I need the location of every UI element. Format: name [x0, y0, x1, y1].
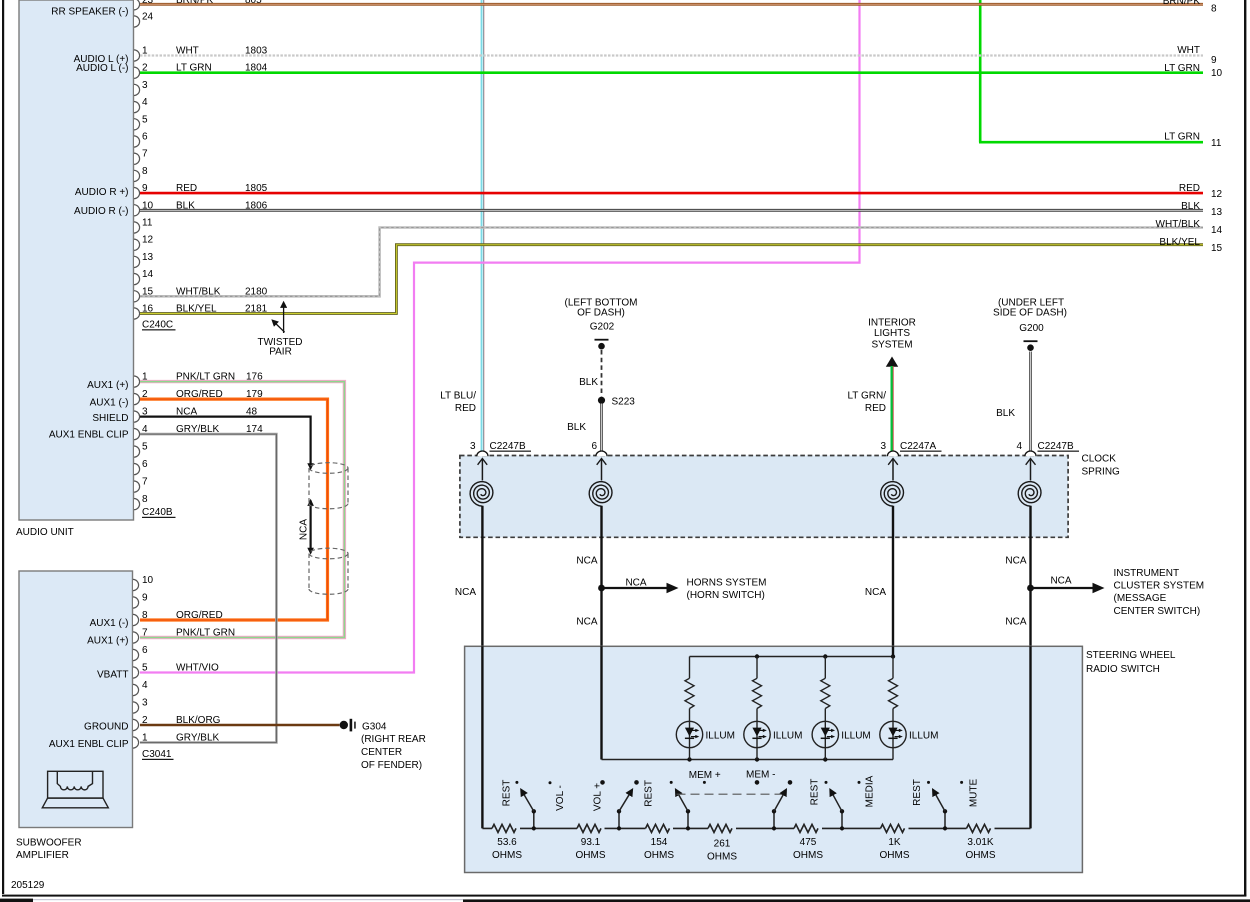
svg-text:NCA: NCA: [1005, 617, 1026, 628]
svg-text:RED: RED: [455, 403, 476, 414]
illumination LED 1: [676, 721, 702, 748]
subwoofer speaker icon: [42, 771, 108, 808]
svg-text:LT BLU/: LT BLU/: [440, 391, 476, 402]
svg-text:11: 11: [142, 218, 153, 229]
wire BLK/ORG subwoofer pin2 to G304: [140, 724, 340, 727]
svg-text:205129: 205129: [11, 880, 45, 891]
right edge pin numbers: [1211, 4, 1223, 255]
connector C240B pin bumps: [134, 376, 140, 510]
illumination LED 3: [812, 721, 838, 748]
svg-text:RADIO SWITCH: RADIO SWITCH: [1086, 664, 1160, 675]
LT BLU/RED wire label: [440, 391, 476, 415]
svg-text:1K: 1K: [888, 837, 901, 848]
interior lights arrow: [886, 357, 898, 367]
svg-text:BLK: BLK: [567, 422, 586, 433]
clock spring connector labels: [470, 441, 531, 452]
svg-text:WHT: WHT: [1177, 45, 1200, 56]
ground G200 symbol: [1024, 340, 1038, 351]
svg-text:4: 4: [142, 97, 148, 108]
illumination LED 2: [744, 721, 770, 748]
svg-text:3: 3: [470, 441, 476, 452]
svg-text:3.01K: 3.01K: [967, 837, 993, 848]
svg-text:OF DASH): OF DASH): [577, 308, 625, 319]
svg-text:6: 6: [142, 132, 148, 143]
svg-text:REST: REST: [810, 779, 821, 806]
svg-text:RR SPEAKER (-): RR SPEAKER (-): [51, 7, 128, 18]
svg-text:11: 11: [1211, 138, 1222, 149]
svg-text:CLUSTER SYSTEM: CLUSTER SYSTEM: [1114, 581, 1205, 592]
svg-text:LT GRN: LT GRN: [1164, 132, 1200, 143]
svg-text:C2247B: C2247B: [1038, 441, 1074, 452]
clock spring coil 3: [881, 459, 904, 507]
svg-text:7: 7: [142, 149, 148, 160]
switch S1 REST/VOL-: [515, 781, 551, 831]
steering wheel radio switch box: [465, 646, 1083, 872]
splice on wire2: [598, 585, 605, 592]
clock spring coil 4: [1018, 459, 1041, 507]
svg-text:LT GRN/: LT GRN/: [847, 391, 886, 402]
svg-text:12: 12: [142, 235, 154, 246]
wire GRY/BLK 174 audio pin4 to subwoofer pin1: [140, 434, 276, 742]
svg-text:RED: RED: [865, 403, 886, 414]
svg-text:(RIGHT REAR: (RIGHT REAR: [361, 734, 426, 745]
resistor 93.1 OHMS: [577, 824, 601, 832]
svg-text:G202: G202: [590, 322, 615, 333]
connector C3041 pin bumps: [133, 579, 139, 748]
svg-text:BLK/YEL: BLK/YEL: [1159, 237, 1200, 248]
svg-text:3: 3: [142, 698, 148, 709]
svg-text:REST: REST: [501, 780, 512, 807]
illumination bottom bus: [602, 759, 894, 761]
svg-text:CENTER SWITCH): CENTER SWITCH): [1114, 606, 1201, 617]
svg-text:ILLUM: ILLUM: [773, 731, 802, 742]
svg-text:6: 6: [142, 459, 148, 470]
svg-text:LIGHTS: LIGHTS: [874, 328, 910, 339]
svg-text:REST: REST: [644, 780, 655, 807]
connector C240B pin numbers and wire labels: [142, 372, 263, 506]
wire WHT/VIO subwoofer pin5 run: [140, 0, 860, 673]
svg-text:14: 14: [142, 269, 154, 280]
svg-text:AUDIO R (-): AUDIO R (-): [74, 206, 128, 217]
svg-text:CLOCK: CLOCK: [1082, 454, 1117, 465]
resistor 475 OHMS: [794, 824, 818, 832]
svg-text:OHMS: OHMS: [793, 850, 823, 861]
svg-text:C2247B: C2247B: [490, 441, 526, 452]
svg-text:BRN/PK: BRN/PK: [1163, 0, 1201, 7]
wires re-drawn over box: NCA verticals inside box: [482, 646, 1030, 828]
svg-text:NCA: NCA: [576, 556, 597, 567]
svg-text:12: 12: [1211, 189, 1223, 200]
svg-text:475: 475: [800, 837, 817, 848]
connector C240C wire name and circuit labels: [176, 0, 268, 315]
svg-text:NCA: NCA: [576, 617, 597, 628]
wire LT GRN right pin11 vertical drop: [979, 0, 982, 142]
svg-text:WHT/BLK: WHT/BLK: [1156, 219, 1201, 230]
svg-text:14: 14: [1211, 225, 1223, 236]
svg-text:SYSTEM: SYSTEM: [871, 340, 912, 351]
svg-text:AUX1 (+): AUX1 (+): [87, 380, 128, 391]
svg-text:SIDE OF DASH): SIDE OF DASH): [993, 308, 1067, 319]
svg-text:OHMS: OHMS: [707, 852, 737, 863]
clock spring coil 1: [470, 459, 493, 507]
svg-text:13: 13: [1211, 207, 1223, 218]
svg-text:154: 154: [651, 837, 668, 848]
shield drain middle arrowheads: [307, 499, 314, 506]
svg-text:INSTRUMENT: INSTRUMENT: [1114, 568, 1180, 579]
svg-text:NCA: NCA: [299, 519, 310, 540]
svg-text:NCA: NCA: [865, 587, 886, 598]
illumination resistor column 2: [753, 657, 762, 760]
svg-text:ILLUM: ILLUM: [909, 731, 938, 742]
twisted pair callout arrows: [283, 303, 285, 334]
wire BLK G200 to clock spring pin4 C2247B: [1029, 352, 1032, 452]
svg-text:3: 3: [142, 80, 148, 91]
svg-text:10: 10: [142, 575, 154, 586]
svg-text:53.6: 53.6: [497, 837, 517, 848]
svg-text:5: 5: [142, 663, 148, 674]
switch S4 MEM- side: [755, 780, 793, 830]
svg-text:7: 7: [142, 477, 148, 488]
svg-text:5: 5: [142, 442, 148, 453]
connector C240C pin numbers: [142, 0, 154, 315]
shield drain middle segment: [310, 501, 312, 553]
wire BLK S223 to clock spring pin6: [600, 404, 603, 452]
resistor 261 OHMS: [708, 824, 732, 832]
svg-text:6: 6: [142, 645, 148, 656]
svg-text:INTERIOR: INTERIOR: [868, 318, 916, 329]
branch to horns system: [602, 587, 669, 589]
svg-text:13: 13: [142, 252, 154, 263]
svg-text:9: 9: [1211, 55, 1217, 66]
svg-text:BLK: BLK: [996, 408, 1015, 419]
svg-text:6: 6: [591, 441, 597, 452]
svg-text:CENTER: CENTER: [361, 747, 402, 758]
page border left: [2, 0, 4, 894]
wire ORG/RED 179 audio pin2 to subwoofer pin8: [140, 399, 328, 620]
wire NCA clock spring 3 down to illumination top bus: [892, 506, 894, 657]
svg-text:8: 8: [142, 166, 148, 177]
svg-text:SUBWOOFER: SUBWOOFER: [16, 838, 82, 849]
audio unit block body: [19, 0, 134, 520]
branch to instrument cluster: [1031, 587, 1095, 589]
wire NCA 48 shield drain upper segment: [140, 417, 311, 464]
svg-text:OHMS: OHMS: [644, 850, 674, 861]
svg-text:24: 24: [142, 12, 154, 23]
svg-text:C240C: C240C: [142, 320, 173, 331]
illumination resistor column 3: [821, 657, 830, 760]
svg-text:S223: S223: [612, 397, 636, 408]
mechanical gang dashed link: [677, 793, 784, 795]
svg-text:BLK: BLK: [579, 377, 598, 388]
wire resistor chain segments: [482, 827, 1030, 829]
svg-text:G304: G304: [362, 722, 387, 733]
svg-text:3: 3: [880, 441, 886, 452]
svg-text:AUX1 ENBL CLIP: AUX1 ENBL CLIP: [49, 430, 129, 441]
svg-text:PAIR: PAIR: [269, 347, 292, 358]
shield cylinder upper: [309, 463, 348, 509]
wire NCA clock spring 1 down to switch chain: [481, 506, 483, 829]
svg-text:AUX1 (+): AUX1 (+): [87, 636, 128, 647]
svg-text:OHMS: OHMS: [576, 850, 606, 861]
svg-text:MUTE: MUTE: [969, 779, 980, 808]
subwoofer amplifier block body: [19, 571, 133, 828]
svg-text:OHMS: OHMS: [880, 850, 910, 861]
svg-text:NCA: NCA: [455, 587, 476, 598]
wire LT GRN right pin11 horizontal: [979, 141, 1203, 144]
subwoofer signal labels: [49, 618, 129, 750]
switch S6 REST/MUTE: [927, 781, 963, 831]
resistor 1K OHMS: [881, 824, 905, 832]
svg-text:WHT/VIO: WHT/VIO: [176, 663, 219, 674]
svg-text:10: 10: [1211, 68, 1223, 79]
svg-text:OHMS: OHMS: [492, 850, 522, 861]
resistor 154 OHMS: [646, 824, 670, 832]
svg-text:5: 5: [142, 114, 148, 125]
wire PNK/LT GRN 176 audio pin1 to subwoofer pin7: [140, 382, 344, 638]
svg-text:AUX1 (-): AUX1 (-): [90, 398, 129, 409]
resistor 3.01K OHMS: [967, 824, 991, 832]
illumination LED 4: [880, 721, 906, 748]
connector C240C pin bumps: [134, 0, 140, 319]
ground G202 symbol: [595, 339, 609, 350]
svg-text:9: 9: [142, 593, 148, 604]
next page top bar right: [463, 899, 1250, 902]
page border right: [1244, 0, 1246, 896]
clock spring box: [460, 456, 1068, 538]
shield cylinder lower: [309, 548, 348, 594]
svg-text:SPRING: SPRING: [1082, 467, 1121, 478]
svg-text:(HORN SWITCH): (HORN SWITCH): [687, 590, 765, 601]
svg-text:LT GRN: LT GRN: [1164, 63, 1200, 74]
svg-text:NCA: NCA: [1050, 576, 1071, 587]
svg-text:STEERING WHEEL: STEERING WHEEL: [1086, 650, 1176, 661]
splice on wire4: [1027, 585, 1034, 592]
page border bottom: [2, 895, 1246, 897]
svg-text:NCA: NCA: [625, 578, 646, 589]
svg-text:SHIELD: SHIELD: [92, 413, 128, 424]
svg-text:BLK: BLK: [1181, 201, 1200, 212]
svg-text:HORNS SYSTEM: HORNS SYSTEM: [687, 578, 767, 589]
audio unit signal labels: [49, 7, 129, 441]
svg-text:REST: REST: [912, 779, 923, 806]
LT GRN/RED wire label: [847, 391, 886, 415]
bottom bus junction dots: [687, 757, 691, 761]
switch S3 MEM+ side: [670, 781, 706, 831]
connector C3041 pin numbers and wire labels: [142, 575, 235, 744]
wire WHT 1803 pin1 to right pin9: [140, 54, 1203, 56]
svg-text:MEM -: MEM -: [746, 770, 775, 781]
next page faint rule: [33, 899, 463, 900]
svg-text:MEM +: MEM +: [689, 770, 721, 781]
top bus junction dots: [755, 654, 759, 658]
svg-text:G200: G200: [1019, 323, 1044, 334]
wire BLK/YEL 2181 pin16 run: [140, 245, 1203, 314]
wire LT GRN/RED to interior lights system: [892, 366, 893, 452]
wire LT GRN 1804 pin2 to right pin10: [140, 71, 1203, 74]
svg-text:NCA: NCA: [1005, 556, 1026, 567]
svg-text:4: 4: [142, 680, 148, 691]
wire WHT/BLK 2180 dark fleck center: [140, 228, 1203, 297]
svg-text:AUDIO R +): AUDIO R +): [75, 187, 129, 198]
svg-text:GROUND: GROUND: [84, 722, 128, 733]
svg-text:ILLUM: ILLUM: [841, 731, 870, 742]
svg-text:AUDIO L (-): AUDIO L (-): [76, 63, 128, 74]
svg-text:VOL -: VOL -: [555, 785, 566, 811]
switch S5 REST/MEDIA: [825, 781, 861, 831]
resistor value captions: [492, 837, 996, 863]
svg-text:C240B: C240B: [142, 507, 173, 518]
svg-text:OF FENDER): OF FENDER): [361, 760, 422, 771]
wire BRN/PK 805 pin23 to right pin8: [140, 3, 1203, 6]
svg-text:261: 261: [714, 839, 731, 850]
svg-text:(MESSAGE: (MESSAGE: [1114, 593, 1167, 604]
svg-text:AUDIO UNIT: AUDIO UNIT: [16, 527, 74, 538]
svg-text:OHMS: OHMS: [966, 850, 996, 861]
resistor 53.6 OHMS: [492, 824, 516, 832]
svg-text:VBATT: VBATT: [97, 670, 128, 681]
wire RED 1805 pin9 to right pin12: [140, 192, 1203, 195]
wire BLK 1806 pin10 to right pin13: [140, 209, 1203, 212]
illumination resistor column 4: [889, 657, 898, 760]
svg-text:AMPLIFIER: AMPLIFIER: [16, 850, 69, 861]
svg-text:AUX1 ENBL CLIP: AUX1 ENBL CLIP: [49, 739, 129, 750]
wire BLK G202 dashed segment: [601, 350, 603, 397]
wire NCA clock spring 2 down to illumination bus: [600, 506, 602, 760]
illumination resistor column 1: [685, 657, 694, 760]
svg-text:C2247A: C2247A: [900, 441, 936, 452]
shield drain upper arrowhead: [307, 463, 314, 470]
illumination top bus: [690, 656, 894, 658]
wire LT BLU/RED vertical to clock spring pin3 C2247B: [482, 0, 484, 452]
svg-text:VOL +: VOL +: [592, 783, 603, 811]
clock spring coil 2: [589, 459, 612, 507]
next page top bar left stub: [0, 899, 33, 902]
svg-text:AUX1 (-): AUX1 (-): [90, 618, 129, 629]
svg-text:MEDIA: MEDIA: [865, 775, 876, 807]
ground G304 symbol: [340, 719, 356, 732]
svg-text:4: 4: [1016, 441, 1022, 452]
svg-text:RED: RED: [1179, 183, 1200, 194]
splice S223: [598, 397, 605, 404]
svg-text:15: 15: [1211, 243, 1223, 254]
svg-text:93.1: 93.1: [581, 837, 601, 848]
svg-text:C3041: C3041: [142, 749, 172, 760]
svg-text:8: 8: [142, 494, 148, 505]
wire WHT/BLK 2180 pin15 run: [140, 228, 1203, 297]
svg-text:1803: 1803: [245, 46, 268, 57]
right edge wire labels: [1156, 0, 1201, 248]
wire BLK/YEL 2181 yellow center: [140, 245, 1203, 314]
switch S2 VOL+/REST: [600, 780, 639, 830]
svg-text:8: 8: [1211, 4, 1217, 15]
svg-text:ILLUM: ILLUM: [706, 731, 735, 742]
wire NCA clock spring 4 down to switch chain: [1029, 506, 1031, 829]
clock spring entry arcs: [477, 451, 1036, 456]
